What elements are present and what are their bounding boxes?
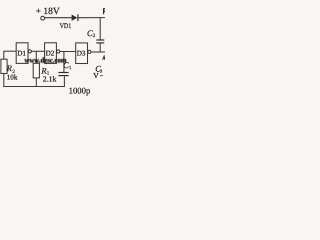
capacitor C2 [96,39,104,41]
wire C2 down to output wire [99,43,101,52]
wire R2 to bottom rail [3,74,5,88]
diode VD1 [72,15,78,21]
background [0,0,105,118]
svg-text:2.1k: 2.1k [43,75,57,84]
wire D2 output node down to C1 [63,52,65,73]
wire terminal to diode [45,17,72,19]
svg-text:VD1: VD1 [60,22,72,30]
wire D1 output node down to R1 [35,51,37,63]
resistor R2 [1,59,7,73]
svg-text:V: V [93,71,99,80]
bottom rail [3,86,64,88]
bubble D1 output [28,50,31,53]
cut-off letter right mid [103,56,105,60]
bubble D2 output [57,50,60,53]
svg-text:1000p: 1000p [69,85,91,95]
wire diode to right edge [79,17,106,19]
wire D2 to D3 [60,51,76,53]
wire R1 to bottom rail [35,78,37,87]
wire C1 to bottom rail [63,76,65,87]
wire input to D1 [4,50,16,52]
wire D3 to right edge [91,51,105,53]
wire down to R2 [3,51,5,59]
terminal +18V [41,16,45,20]
svg-text:+ 18V: + 18V [36,7,60,17]
watermark [25,56,68,65]
wire D1 to D2 [31,50,44,52]
bubble D3 output [88,50,91,53]
wire top rail down to C2 [99,18,101,40]
svg-text:D3: D3 [77,50,86,58]
inverter D2 [45,43,57,64]
svg-text:www.dzsc.com: www.dzsc.com [25,56,68,65]
inverter D3 [76,43,88,64]
cut-off letter top right [104,8,105,14]
svg-text:10k: 10k [7,74,18,82]
resistor R1 [33,63,39,78]
inverter D1 [16,43,28,64]
capacitor C1 [58,72,68,74]
